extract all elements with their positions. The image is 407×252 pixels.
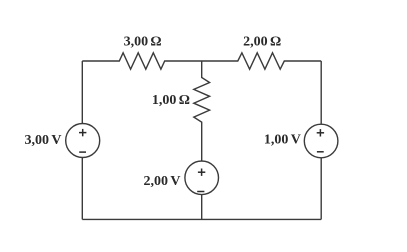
svg-text:3,00 Ω: 3,00 Ω <box>124 34 162 49</box>
svg-text:1,00 Ω: 1,00 Ω <box>152 93 190 108</box>
svg-text:2,00 Ω: 2,00 Ω <box>243 34 281 49</box>
svg-text:1,00 V: 1,00 V <box>264 133 301 148</box>
svg-text:2,00 V: 2,00 V <box>144 174 181 189</box>
svg-text:3,00 V: 3,00 V <box>25 133 62 148</box>
